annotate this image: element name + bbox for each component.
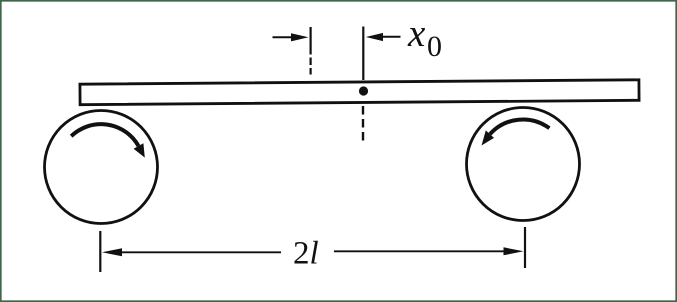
x0 dimension: right arrow pointing left with tail [366, 33, 383, 41]
svg-text:0: 0 [427, 30, 442, 63]
svg-text:x: x [407, 12, 426, 55]
tick above bar at bar center (x0 right reference) [362, 27, 364, 81]
2l dimension: right tick below right roller [524, 227, 526, 268]
svg-text:2l: 2l [293, 236, 319, 272]
bar (plank resting on rollers) [80, 80, 639, 105]
right roller circle [467, 108, 580, 221]
dashed centerline below bar [362, 106, 364, 144]
2l dimension line, left segment with left-pointing arrow [102, 248, 122, 256]
2l dimension: left tick below left roller [99, 231, 101, 272]
left roller circle [45, 111, 158, 224]
x0 dimension: left arrow pointing right [273, 36, 295, 38]
tick: equilibrium midpoint mark (x0 left reference, dashed lower part) [310, 27, 312, 55]
2l dimension line, right segment with right-pointing arrow [334, 250, 506, 252]
left roller rotation arrow (clockwise over top) [71, 124, 138, 146]
right roller rotation arrow (counter-clockwise over top) [490, 119, 550, 134]
center-of-mass dot on bar [359, 86, 368, 95]
